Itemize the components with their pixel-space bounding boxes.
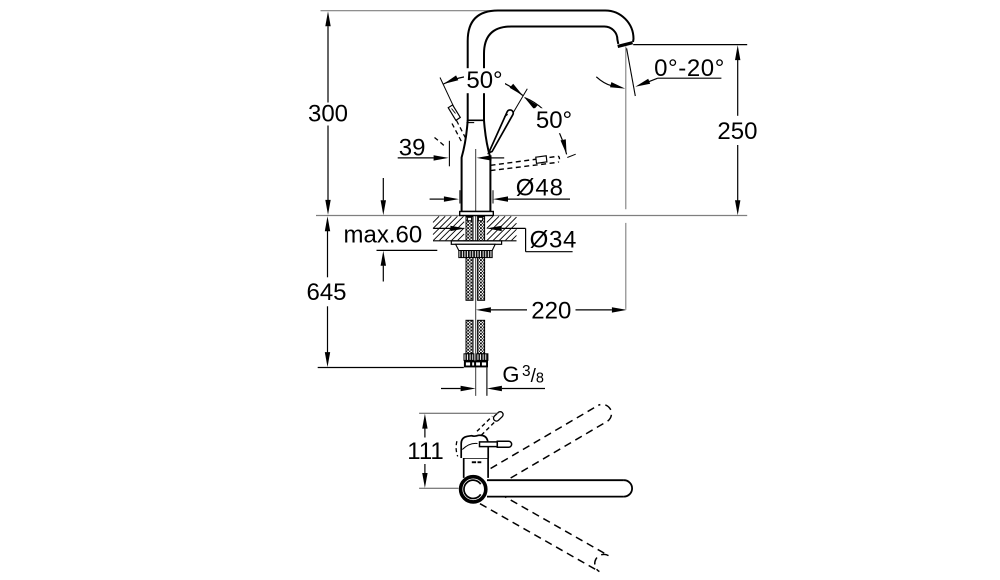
svg-text:645: 645 bbox=[306, 279, 346, 306]
svg-text:max.60: max.60 bbox=[344, 221, 423, 248]
svg-text:0°-20°: 0°-20° bbox=[654, 55, 725, 82]
svg-text:300: 300 bbox=[308, 101, 348, 128]
svg-text:Ø34: Ø34 bbox=[530, 226, 577, 253]
svg-text:39: 39 bbox=[399, 134, 426, 161]
svg-text:50°: 50° bbox=[536, 107, 572, 134]
svg-text:250: 250 bbox=[717, 118, 757, 145]
svg-text:220: 220 bbox=[531, 297, 571, 324]
svg-text:111: 111 bbox=[407, 438, 443, 465]
svg-text:Ø48: Ø48 bbox=[516, 175, 564, 202]
svg-text:50°: 50° bbox=[466, 67, 502, 94]
